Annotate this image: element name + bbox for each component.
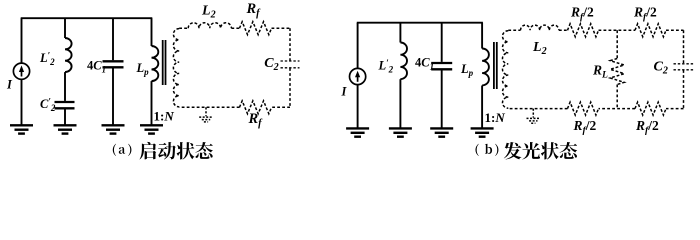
ground under 4C1 (a) <box>102 124 125 126</box>
svg-text:1:N: 1:N <box>485 110 506 125</box>
current source I (b) <box>350 68 366 84</box>
ground under Lp (a) <box>140 124 163 126</box>
wire 4C1 to ground (b) <box>441 69 443 128</box>
wire dashed bottom right segment (b) <box>666 108 684 110</box>
ground under C'2 (a) <box>54 124 77 126</box>
wire Lp top (b) <box>481 23 483 49</box>
ground under 4C1 (b) <box>430 127 453 129</box>
capacitor 4C1 (a) <box>103 60 124 62</box>
wire top bus (b) <box>357 22 483 24</box>
capacitor C2 (b, dashed) <box>674 63 694 65</box>
resistor Rf/2 top-left (b, dashed) <box>568 24 599 37</box>
wire middle branch upper (b) <box>616 30 618 58</box>
wire dashed top segment 3 (b) <box>599 29 636 31</box>
ground small dashed (a) <box>205 107 207 116</box>
svg-text:C2: C2 <box>264 56 278 73</box>
svg-text:L′2: L′2 <box>39 51 55 68</box>
wire branch I (a) top <box>21 18 23 63</box>
svg-text:Rf: Rf <box>248 111 264 129</box>
ground under L'2 (b) <box>389 127 412 129</box>
capacitor C'2 (a) <box>55 101 75 103</box>
wire dashed right upper (a) <box>289 28 291 61</box>
wire Lp top (a) <box>151 18 153 46</box>
caption (a) startup state <box>113 144 116 156</box>
wire below source (b) <box>357 85 359 129</box>
transformer core (a) <box>162 40 164 85</box>
wire L'2 top (a) <box>64 18 66 38</box>
svg-text:Rf: Rf <box>246 1 262 19</box>
svg-text:L2: L2 <box>201 4 216 21</box>
ground under Lp (b) <box>471 127 494 129</box>
wire 4C1 to ground (a) <box>112 67 114 125</box>
wire Lp to ground (a) <box>151 81 153 125</box>
transformer core (b) <box>493 42 495 89</box>
resistor Rf/2 top-right (b, dashed) <box>635 24 666 37</box>
wire dashed top right segment (b) <box>666 29 684 31</box>
wire below source (a) <box>21 79 23 125</box>
capacitor 4C1 (b) <box>431 62 452 64</box>
svg-text:C′2: C′2 <box>40 97 56 114</box>
current source I (a) <box>13 63 29 79</box>
svg-text:I: I <box>6 78 13 92</box>
wire dashed top right segment (a) <box>272 27 291 29</box>
wire 4C1 top (b) <box>441 23 443 62</box>
wire dashed right lower (b) <box>683 70 685 109</box>
svg-text:RL: RL <box>592 63 608 81</box>
wire L'2 to ground (b) <box>399 79 401 128</box>
capacitor C2 (a, dashed) <box>281 60 300 62</box>
wire dashed bottom left segment (a) <box>179 106 239 108</box>
svg-text:4C1: 4C1 <box>415 55 434 71</box>
wire Lp to ground (b) <box>481 86 483 129</box>
wire between L'2 and C'2 (a) <box>64 72 66 101</box>
svg-text:Rf/2: Rf/2 <box>573 118 597 136</box>
ground under I (b) <box>346 127 369 129</box>
inductor L2 (a, dashed) <box>188 23 231 28</box>
ground small dashed (b) <box>532 109 534 118</box>
wire 4C1 top (a) <box>112 18 114 60</box>
svg-text:Rf/2: Rf/2 <box>635 118 659 136</box>
wire dashed bottom left segment (b) <box>508 108 567 110</box>
svg-text:Rf/2: Rf/2 <box>633 5 657 23</box>
wire dashed top segment 2 (b) <box>559 29 568 31</box>
ground under I (a) <box>10 124 33 126</box>
resistor Rf/2 bottom-left (b, dashed) <box>568 102 599 115</box>
svg-text:Lp: Lp <box>136 61 150 77</box>
resistor Rf/2 bottom-right (b, dashed) <box>635 102 666 115</box>
wire dashed right lower (a) <box>289 68 291 107</box>
inductor L'2 (b) <box>400 43 407 80</box>
wire dashed top-left segment (b) <box>508 29 520 31</box>
wire dashed bottom right segment (a) <box>272 106 291 108</box>
svg-text:1:N: 1:N <box>154 109 175 124</box>
svg-text:C2: C2 <box>654 59 668 76</box>
resistor Rf bottom (a, dashed) <box>240 101 272 114</box>
svg-text:Lp: Lp <box>460 62 474 78</box>
wire branch I (b) top <box>357 23 359 69</box>
wire middle branch lower (b) <box>616 85 618 109</box>
transformer secondary winding (a, dashed) <box>173 29 179 107</box>
resistor RL (b, dashed) <box>610 59 624 85</box>
wire C'2 to ground (a) <box>64 108 66 125</box>
svg-text:Rf/2: Rf/2 <box>570 5 594 23</box>
wire dashed right upper (b) <box>683 30 685 63</box>
wire L'2 top (b) <box>399 23 401 43</box>
transformer secondary winding (b, dashed) <box>502 31 508 109</box>
inductor L2 (b, dashed) <box>521 25 559 30</box>
inductor L'2 (a) <box>65 38 72 72</box>
wire dashed bottom segment 2 (b) <box>599 108 636 110</box>
transformer primary Lp (b) <box>482 49 489 86</box>
wire top bus (a) <box>21 17 153 19</box>
wire dashed top mid segment (a) <box>231 27 239 29</box>
caption (b) lighting state <box>475 144 478 156</box>
wire dashed top-left segment (a) <box>179 27 188 29</box>
svg-text:L2: L2 <box>532 40 547 57</box>
svg-text:L′2: L′2 <box>378 58 394 75</box>
resistor Rf top (a, dashed) <box>240 22 272 35</box>
svg-text:I: I <box>341 84 348 98</box>
transformer primary Lp (a) <box>152 46 159 81</box>
